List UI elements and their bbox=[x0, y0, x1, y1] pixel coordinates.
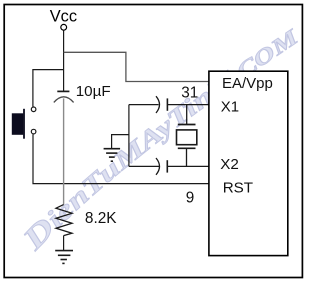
ground GND1 bbox=[55, 251, 73, 264]
capacitor C2 straight plate bbox=[166, 98, 168, 110]
wire loop to C2 bbox=[129, 104, 159, 106]
svg-text:10µF: 10µF bbox=[76, 83, 111, 100]
svg-text:8.2K: 8.2K bbox=[85, 210, 117, 227]
wire Vcc to switch S1 bbox=[33, 70, 64, 107]
capacitor C1 top plate bbox=[57, 90, 69, 92]
crystal Y1 top plate bbox=[178, 124, 196, 126]
svg-text:X1: X1 bbox=[221, 99, 239, 116]
IC U1 (8051) body bbox=[209, 71, 288, 255]
pushbutton S1 bottom contact bbox=[31, 129, 36, 134]
capacitor C1 curved plate bbox=[54, 97, 74, 103]
wire C1 to RST junction bbox=[63, 98, 65, 204]
ground GND2 bbox=[104, 149, 121, 162]
wire switch S1 to RST pin bbox=[33, 134, 209, 183]
capacitor C2 curved plate bbox=[156, 96, 160, 113]
Vcc terminal circle bbox=[61, 24, 67, 30]
resistor R1 bbox=[56, 205, 72, 236]
wire C3 to X2 pin bbox=[167, 165, 209, 167]
wire crystal loop left side bbox=[128, 105, 130, 167]
wire crystal Y1 to X2 wire bbox=[186, 148, 188, 166]
crystal Y1 body bbox=[177, 130, 197, 145]
pushbutton S1 body bbox=[12, 113, 23, 135]
wire crystal Y1 to X1 wire bbox=[186, 105, 188, 125]
svg-text:X2: X2 bbox=[220, 156, 239, 173]
svg-text:RST: RST bbox=[223, 179, 253, 196]
svg-text:EA/Vpp: EA/Vpp bbox=[222, 75, 273, 92]
wire GND2 tap bbox=[112, 135, 129, 149]
wire loop to C3 bbox=[129, 165, 159, 167]
wire R1 to ground bbox=[63, 236, 65, 251]
capacitor C3 straight plate bbox=[166, 160, 168, 172]
svg-text:31: 31 bbox=[181, 85, 198, 102]
wire Vcc down to C1 bbox=[63, 30, 65, 91]
crystal Y1 bottom plate bbox=[178, 147, 196, 149]
capacitor C3 curved plate bbox=[156, 158, 160, 175]
wire Vcc branch to EA/Vpp pin bbox=[64, 52, 209, 81]
pushbutton S1 top contact bbox=[31, 107, 36, 112]
svg-text:9: 9 bbox=[186, 190, 195, 207]
wire C2 to X1 pin bbox=[167, 104, 209, 106]
svg-text:Vcc: Vcc bbox=[50, 8, 77, 26]
pushbutton S1 actuator bar bbox=[23, 109, 25, 139]
